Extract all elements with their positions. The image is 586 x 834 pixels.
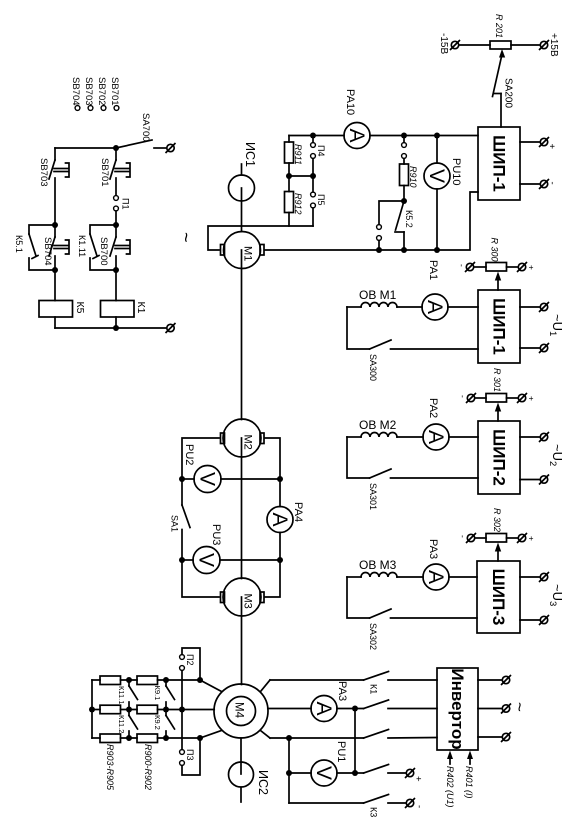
voltmeter PU3 xyxy=(193,547,220,574)
svg-text:R903-R905: R903-R905 xyxy=(105,744,115,791)
wire PU2 right stub xyxy=(221,478,280,480)
node star bus xyxy=(89,707,95,713)
pin circle SB701 xyxy=(114,106,119,111)
svg-text:П4: П4 xyxy=(316,145,326,156)
svg-text:К9.2: К9.2 xyxy=(153,715,162,730)
wire PU10 bottom xyxy=(436,189,438,250)
wire U1 lower out xyxy=(520,347,540,349)
terminal +15V xyxy=(540,41,549,50)
node rail2 K9 xyxy=(163,707,169,713)
connector branch left of K5.2 xyxy=(377,201,404,250)
wire right rail upper xyxy=(115,148,117,160)
node phase C tap xyxy=(286,735,292,741)
node right rail D xyxy=(113,267,119,273)
terminal bottom-left xyxy=(166,324,175,333)
svg-text:SB704: SB704 xyxy=(42,237,53,266)
arrow R401 input xyxy=(467,751,473,765)
resistor R901 rail2 xyxy=(137,705,158,714)
terminal SHIP1 minus xyxy=(540,180,549,189)
terminal U2 lower xyxy=(540,475,549,484)
svg-text:R 301: R 301 xyxy=(492,368,502,392)
wire PU2 left stub xyxy=(182,478,194,480)
svg-text:П1: П1 xyxy=(121,198,131,209)
connector pins above R910 xyxy=(402,143,407,159)
svg-text:РА3: РА3 xyxy=(427,539,439,559)
terminal R301 right xyxy=(518,394,527,403)
wire R301 left xyxy=(476,397,487,399)
svg-text:+15В: +15В xyxy=(548,33,559,57)
brush M1 right xyxy=(260,245,264,256)
svg-text:PU3: PU3 xyxy=(210,524,222,545)
wire shaft M4 to IC2 xyxy=(240,738,242,774)
pin circle SB704 xyxy=(75,106,80,111)
svg-text:-: - xyxy=(458,535,468,538)
svg-text:М1: М1 xyxy=(242,246,254,261)
wire U3 lower out xyxy=(520,619,540,621)
switch SA700 blade xyxy=(116,140,152,148)
brush M2 left xyxy=(221,433,225,444)
node PU1 left xyxy=(286,770,292,776)
wire pin to R910 xyxy=(403,159,405,165)
svg-text:SB703: SB703 xyxy=(83,77,94,106)
svg-text:-: - xyxy=(458,395,468,398)
relay coil K5 xyxy=(39,301,73,318)
wire brake plus row xyxy=(355,772,364,774)
converter SHIP-1 box xyxy=(478,127,520,200)
brush M2 right xyxy=(260,433,264,444)
node left rail C xyxy=(52,267,58,273)
pushbutton SB700 xyxy=(110,225,130,270)
contact K3 blade plus xyxy=(364,765,389,774)
wire shaft M2 to M3 xyxy=(241,438,243,579)
wire M4 rotor upper-left diagonal xyxy=(200,680,222,692)
wire shaft IC1 to M1 xyxy=(241,188,243,232)
ammeter PA1 xyxy=(422,294,448,320)
wire M4 stator lower-right diagonal xyxy=(261,731,271,739)
wire M4 stator middle-right xyxy=(268,708,311,710)
wire top line to PA10 xyxy=(289,135,344,137)
wire phase B to inverter xyxy=(388,708,437,710)
svg-text:ШИП-2: ШИП-2 xyxy=(490,429,509,486)
wire K3 to minus terminal xyxy=(388,802,406,804)
wire phase B down to PU1 xyxy=(354,709,356,774)
node K5.2 split xyxy=(401,198,407,204)
tachogenerator IC1 xyxy=(229,175,255,201)
wire SA301 to box xyxy=(391,477,479,479)
voltmeter PU1 xyxy=(311,760,337,786)
node bus K5.2 right xyxy=(401,247,407,253)
svg-text:V: V xyxy=(195,553,218,567)
svg-text:-15В: -15В xyxy=(438,33,449,54)
pushbutton SB701 xyxy=(110,160,130,179)
svg-text:A: A xyxy=(424,430,447,444)
arrow R402 input xyxy=(447,751,453,765)
motor M3 xyxy=(223,578,261,616)
motor M2 xyxy=(223,419,261,457)
svg-text:R912: R912 xyxy=(293,193,303,215)
svg-text:+: + xyxy=(527,265,537,270)
converter SHIP-3 box xyxy=(477,561,520,633)
node mid link right xyxy=(310,173,316,179)
wire PA3 to box xyxy=(449,576,477,578)
svg-text:SB700: SB700 xyxy=(98,237,109,266)
ammeter PA3 stator xyxy=(311,696,337,722)
wire П5 upper stub xyxy=(312,176,314,192)
wire PA1 to box xyxy=(448,306,478,308)
terminal top-left xyxy=(166,144,175,153)
wire shaft above IC1 xyxy=(241,164,243,175)
terminal brake minus xyxy=(406,799,415,808)
svg-text:К1: К1 xyxy=(135,302,147,314)
wire K5 to bus xyxy=(54,317,56,328)
svg-text:Инвертор: Инвертор xyxy=(448,668,467,749)
svg-text:РА1: РА1 xyxy=(427,260,439,280)
wire PU1 right stub xyxy=(337,772,355,774)
wire R302 right xyxy=(507,537,519,539)
terminal SHIP1 plus xyxy=(540,138,549,147)
wire right rail below П1 xyxy=(115,211,117,225)
switch SA1 xyxy=(182,479,190,560)
wire OB M2 left drop xyxy=(347,437,370,478)
switch SA302 blade xyxy=(370,609,392,618)
contact K9.2 xyxy=(166,710,175,739)
svg-text:ШИП-1: ШИП-1 xyxy=(490,135,509,192)
contact K3 blade minus xyxy=(364,795,389,804)
motor M4 inner xyxy=(227,697,256,726)
node rail1 K9 xyxy=(163,677,169,683)
wire phase A to inverter xyxy=(388,679,437,681)
node bus PU10 xyxy=(434,247,440,253)
svg-text:PU10: PU10 xyxy=(450,158,462,186)
wire phase C to K1 xyxy=(270,737,364,739)
wire inverter out C xyxy=(478,736,502,738)
wire rotor rail3 xyxy=(92,737,200,739)
wire SA700 to terminal xyxy=(154,147,166,149)
wiper wire R301 xyxy=(495,403,501,422)
potentiometer R301 xyxy=(486,394,507,403)
node R910 top xyxy=(401,133,407,139)
wire shaft below IC2 xyxy=(240,788,242,803)
terminal U3 upper xyxy=(540,573,549,582)
wire R911 top xyxy=(288,136,290,143)
svg-text:ОВ М2: ОВ М2 xyxy=(359,418,397,432)
resistor R912 xyxy=(285,192,294,213)
svg-text:РА10: РА10 xyxy=(344,89,356,115)
wire shaft M1 to M2 xyxy=(241,250,243,420)
svg-text:П3: П3 xyxy=(185,749,195,760)
switch SA200 blade xyxy=(493,53,503,97)
wire R302 left xyxy=(476,537,487,539)
wire phase C down xyxy=(288,738,290,803)
wire M4 rotor lower-left diagonal xyxy=(200,731,222,739)
wiper arrow R201 xyxy=(499,49,505,58)
svg-text:R911: R911 xyxy=(293,144,303,165)
svg-text:РА2: РА2 xyxy=(427,398,439,418)
potentiometer R201 xyxy=(490,41,511,49)
potentiometer R302 xyxy=(486,534,507,543)
contact K1 blade phase A xyxy=(364,672,389,681)
node П4 top xyxy=(310,133,316,139)
node PU2 left xyxy=(179,476,185,482)
motor M4 outer xyxy=(214,684,268,738)
voltmeter PU10 drop xyxy=(436,136,438,164)
connector П5 pins xyxy=(311,192,316,208)
wire bottom bus M1 xyxy=(265,192,478,250)
svg-text:R900-R902: R900-R902 xyxy=(143,744,153,790)
potentiometer R300 xyxy=(486,263,507,272)
terminal R302 left xyxy=(467,534,476,543)
svg-text:+: + xyxy=(546,144,557,150)
svg-text:РА3: РА3 xyxy=(336,681,348,701)
svg-text:PU2: PU2 xyxy=(183,444,195,465)
terminal inverter B xyxy=(502,704,511,713)
wire shaft M3 to M4 xyxy=(241,597,243,685)
wire R910 upper stub xyxy=(403,136,405,143)
wire П4 lower stub xyxy=(312,159,314,177)
svg-text:ШИП-3: ШИП-3 xyxy=(489,569,508,626)
svg-text:К1.11: К1.11 xyxy=(77,235,87,257)
wire OB M1 left drop xyxy=(347,307,370,349)
node right rail B xyxy=(113,222,119,228)
node bus K5.2 left xyxy=(376,247,382,253)
terminal R302 right xyxy=(518,534,527,543)
svg-text:М3: М3 xyxy=(242,594,254,609)
resistor R905 rail3 xyxy=(100,734,121,743)
node PU2 right xyxy=(277,476,283,482)
svg-text:V: V xyxy=(196,472,219,486)
wire bottom bus xyxy=(55,327,166,329)
inverter box xyxy=(437,668,478,750)
contact K5.1 branch xyxy=(29,225,55,270)
node left rail A xyxy=(52,222,58,228)
wire star bus xyxy=(91,680,93,738)
switch SA301 blade xyxy=(370,469,392,478)
svg-text:SA200: SA200 xyxy=(503,78,514,108)
wire mid link xyxy=(289,175,313,177)
wire U1 upper out xyxy=(520,306,540,308)
pushbutton SB704 xyxy=(49,225,69,270)
terminal -15V xyxy=(451,41,460,50)
svg-text:К9.1: К9.1 xyxy=(153,686,162,701)
wire to K5 coil xyxy=(54,270,56,301)
motor M1 xyxy=(224,232,261,269)
svg-text:К5.1: К5.1 xyxy=(14,235,24,253)
wire M2 right drop xyxy=(265,438,280,479)
wire inverter out A xyxy=(478,679,502,681)
svg-text:+: + xyxy=(527,396,537,401)
wiper wire R300 xyxy=(495,272,501,291)
terminal inverter C xyxy=(502,733,511,742)
connector П1 pins xyxy=(114,196,119,211)
wire PA3 to K1 xyxy=(337,708,364,710)
resistor R902 rail3 xyxy=(137,734,158,743)
svg-text:ОВ М3: ОВ М3 xyxy=(359,558,397,572)
svg-text:V: V xyxy=(425,169,448,183)
wire M3 left brush up xyxy=(182,560,219,597)
resistor R903 rail1 xyxy=(100,676,121,685)
field winding OB M2 coil xyxy=(347,433,423,438)
relay coil K1 xyxy=(101,301,135,318)
wire PA10 to SHIP1 xyxy=(370,135,478,137)
node rail3 K9 xyxy=(163,735,169,741)
svg-text:SB701: SB701 xyxy=(99,158,110,187)
svg-text:К3: К3 xyxy=(369,807,379,817)
svg-text:-: - xyxy=(547,182,558,185)
svg-text:П2: П2 xyxy=(185,654,195,665)
wire П4 upper stub xyxy=(312,136,314,143)
wire R201 right xyxy=(511,44,540,46)
node PU3 right xyxy=(277,557,283,563)
wire R911-R912 link xyxy=(288,163,290,192)
wire SA300 to box xyxy=(391,348,479,350)
wire phase A to K1 xyxy=(270,679,364,681)
node rail1 K11 xyxy=(126,677,132,683)
wire PA2 to box xyxy=(449,436,478,438)
wire K3 to plus terminal xyxy=(388,772,406,774)
svg-text:-: - xyxy=(414,805,425,808)
ammeter PA3 xyxy=(423,564,449,590)
svg-text:PU1: PU1 xyxy=(335,741,347,762)
svg-text:A: A xyxy=(424,570,447,584)
contact K1 blade phase B xyxy=(364,700,389,709)
terminal U3 lower xyxy=(540,616,549,625)
tachogenerator IC2 xyxy=(229,762,254,787)
svg-text:R402 (U1): R402 (U1) xyxy=(445,766,455,808)
brush M3 left xyxy=(221,592,225,603)
wire PU1 left stub xyxy=(289,772,311,774)
voltmeter PU10 xyxy=(424,163,450,189)
wire R201 left xyxy=(460,44,491,46)
svg-text:R 300: R 300 xyxy=(490,238,500,262)
pin circle SB703 xyxy=(88,106,93,111)
terminal R300 right xyxy=(518,263,527,272)
converter SHIP-1b box xyxy=(478,290,520,363)
contact K11.2 xyxy=(129,710,138,739)
wire M2 left drop xyxy=(182,438,219,479)
converter SHIP-2 box xyxy=(478,421,520,494)
pushbutton SB703 xyxy=(49,160,69,179)
wire U2 lower out xyxy=(520,479,540,481)
contact K1 blade phase C xyxy=(364,730,389,739)
wire phase C to inverter xyxy=(388,737,437,740)
wiper wire R302 xyxy=(495,543,501,562)
node PU1 right xyxy=(352,770,358,776)
wire R912 bottom drop xyxy=(288,213,290,227)
wire SHIP1 plus out xyxy=(520,141,540,143)
svg-text:~: ~ xyxy=(176,232,196,243)
svg-text:К1: К1 xyxy=(369,684,379,694)
node mid link left xyxy=(286,173,292,179)
svg-text:SB702: SB702 xyxy=(96,77,107,106)
terminal R301 left xyxy=(467,394,476,403)
node SA700 pivot xyxy=(113,145,119,151)
field winding OB M3 coil xyxy=(347,573,423,578)
svg-text:A: A xyxy=(312,701,335,715)
svg-text:К11.2: К11.2 xyxy=(117,715,126,733)
contact K9.1 xyxy=(166,680,175,710)
svg-text:R910: R910 xyxy=(408,166,418,188)
wire R910 bottom xyxy=(403,186,405,202)
brush M3 right xyxy=(260,592,264,603)
svg-text:-: - xyxy=(457,264,467,267)
svg-text:V: V xyxy=(312,766,335,780)
wire to K1 coil xyxy=(115,270,117,301)
resistor R911 xyxy=(285,142,294,163)
node rail1 right xyxy=(197,677,203,683)
svg-text:+: + xyxy=(413,776,424,782)
wire U3 upper out xyxy=(520,576,540,578)
wire right rail to PA4 xyxy=(279,479,281,507)
wire inverter out B xyxy=(478,708,502,710)
svg-text:К5: К5 xyxy=(74,302,86,314)
svg-text:К5.2: К5.2 xyxy=(404,210,414,228)
resistor R904 rail2 xyxy=(100,705,121,714)
contact K1.11 branch xyxy=(90,225,116,270)
node bottom bus xyxy=(113,325,119,331)
terminal inverter A xyxy=(502,676,511,685)
svg-text:ШИП-1: ШИП-1 xyxy=(490,298,509,355)
wire M4 stator upper-right diagonal xyxy=(261,680,271,692)
svg-text:ИС2: ИС2 xyxy=(256,770,270,795)
wire M4 rotor middle-left xyxy=(182,709,214,711)
wire OB M3 left drop xyxy=(347,577,370,618)
wire PA4 to PU3 node xyxy=(279,533,281,561)
svg-text:R401 (I): R401 (I) xyxy=(464,766,474,799)
ammeter PA10 xyxy=(344,123,370,149)
svg-text:SA302: SA302 xyxy=(368,623,378,650)
field winding OB M1 coil xyxy=(347,303,422,308)
node PU3 left xyxy=(179,557,185,563)
wire left rail upper xyxy=(54,148,56,160)
wire SHIP1 minus out xyxy=(520,183,540,185)
wire П5 lower stub xyxy=(312,208,314,226)
wire M1 left brush loop xyxy=(208,226,313,250)
node rail3 K11 xyxy=(126,735,132,741)
switch SA300 blade xyxy=(370,340,392,349)
wire SA200 lower xyxy=(500,94,502,128)
wire SA302 to box xyxy=(391,617,478,619)
ammeter PA2 xyxy=(423,424,449,450)
svg-text:R 201: R 201 xyxy=(494,14,504,38)
terminal U1 lower xyxy=(540,344,549,353)
terminal U1 upper xyxy=(540,303,549,312)
voltmeter PU2 xyxy=(194,466,221,493)
wire brake minus row xyxy=(289,802,364,804)
contact K5.2 blade xyxy=(395,201,404,250)
pin circle SB702 xyxy=(101,106,106,111)
wire PU3 left stub xyxy=(182,559,193,561)
node rail2 K11 xyxy=(126,707,132,713)
wire left rail mid xyxy=(54,178,56,225)
svg-text:A: A xyxy=(423,300,446,314)
svg-text:М2: М2 xyxy=(242,435,254,450)
wire right rail to П1 xyxy=(115,178,117,195)
svg-text:П5: П5 xyxy=(316,194,326,205)
node phase B tap xyxy=(352,706,358,712)
resistor R910 xyxy=(400,164,409,186)
svg-text:SB703: SB703 xyxy=(38,158,49,187)
svg-text:SA300: SA300 xyxy=(368,354,378,381)
wire top feed xyxy=(55,147,116,149)
svg-text:SA1: SA1 xyxy=(170,515,180,532)
svg-text:SA700: SA700 xyxy=(140,113,151,142)
wire M3 right brush up xyxy=(265,560,280,597)
wire PU3 right stub xyxy=(220,559,280,561)
node rail2 П xyxy=(179,707,185,713)
node rail3 right xyxy=(197,735,203,741)
resistor R900 rail1 xyxy=(137,676,158,685)
svg-text:К11.1: К11.1 xyxy=(117,686,126,704)
